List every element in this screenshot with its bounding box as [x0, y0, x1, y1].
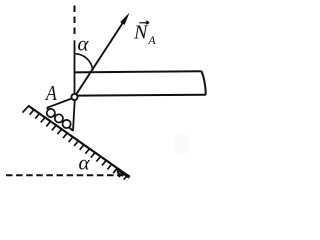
- inclined ground line: [28, 106, 130, 177]
- roller bracket base: [47, 108, 73, 131]
- force vector N_A shaft: [76, 22, 123, 95]
- beam right broken end: [202, 71, 206, 95]
- dashed vertical reference line: [74, 6, 76, 39]
- roller bracket right side: [73, 100, 75, 130]
- svg-text:α: α: [79, 150, 91, 174]
- beam top edge: [74, 71, 202, 72]
- svg-text:A: A: [147, 33, 156, 47]
- roller 1: [47, 109, 55, 117]
- force vector N_A arrowhead: [120, 13, 129, 25]
- beam bottom edge: [78, 94, 206, 97]
- faint scan smudge: [174, 134, 190, 154]
- svg-text:A: A: [44, 82, 57, 105]
- solid vertical line (beam left end / reference): [74, 40, 76, 93]
- pivot circle at A: [71, 94, 77, 100]
- thickened incline tip at vertex: [120, 171, 130, 178]
- roller bracket left side: [47, 99, 72, 108]
- svg-text:α: α: [78, 32, 90, 56]
- svg-text:N: N: [133, 22, 149, 44]
- vector bar arrow over N: [139, 21, 149, 24]
- ground hatching ticks: [23, 106, 128, 179]
- roller 3: [63, 120, 71, 128]
- angle arc at bottom (alpha between incline and horizontal): [118, 169, 124, 176]
- angle arc at top (alpha between vertical and N_A): [75, 54, 93, 70]
- horizontal dashed base line: [6, 174, 126, 176]
- roller 2: [55, 114, 63, 122]
